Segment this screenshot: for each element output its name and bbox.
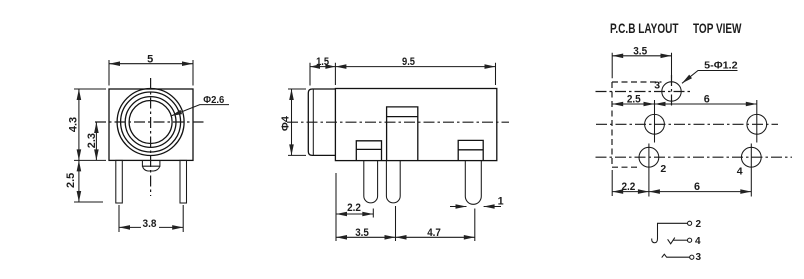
dim 2.5 line xyxy=(78,160,80,202)
svg-text:4: 4 xyxy=(695,236,701,247)
dim 2.3 line xyxy=(95,122,97,160)
hole 4 vertical extension xyxy=(750,144,752,197)
bottom dims left extension line xyxy=(335,173,337,241)
svg-text:Φ2.6: Φ2.6 xyxy=(203,94,224,106)
leader 5-dia1.2 line xyxy=(682,71,738,84)
dim 2.2 right extension xyxy=(372,209,374,218)
pin 4 terminal circle xyxy=(688,238,692,242)
pin 3 wire xyxy=(667,256,690,258)
pin 2 terminal circle xyxy=(688,221,692,225)
left terminal xyxy=(356,141,381,161)
hole 1 (middle left) xyxy=(645,114,665,134)
svg-text:TOP VIEW: TOP VIEW xyxy=(693,20,742,36)
hole 5 vertical extension xyxy=(756,100,758,143)
svg-text:4: 4 xyxy=(737,165,743,177)
hole 3 (top) xyxy=(662,82,681,101)
outer ring circle xyxy=(117,89,184,156)
dim 3.5 mid extension xyxy=(395,206,397,241)
dim 1 arrows xyxy=(456,204,467,209)
pin 3 terminal circle xyxy=(690,255,694,259)
center shield nub xyxy=(142,160,160,171)
hole 2 vertical extension xyxy=(648,144,650,197)
dim 2.5 arrows xyxy=(77,160,82,171)
right terminal leg xyxy=(465,161,481,205)
svg-text:5-Φ1.2: 5-Φ1.2 xyxy=(704,59,738,71)
dim 4.3 extension lines xyxy=(74,89,106,160)
dim 2.2 arrows xyxy=(612,189,623,194)
svg-text:2.2: 2.2 xyxy=(621,181,635,193)
hole row 1-5 centerline horizontal xyxy=(596,123,778,125)
svg-text:4.3: 4.3 xyxy=(67,117,79,132)
middle terminal leg xyxy=(386,161,400,203)
dim 1.5 line xyxy=(310,66,335,68)
svg-text:Φ4: Φ4 xyxy=(280,116,291,131)
right terminal xyxy=(458,140,483,160)
dim 4.7 arrows xyxy=(396,235,407,240)
svg-text:3.5: 3.5 xyxy=(355,227,369,239)
svg-text:1.5: 1.5 xyxy=(316,56,329,68)
svg-text:3: 3 xyxy=(696,252,702,263)
barrel (dia 4) xyxy=(308,89,335,155)
dim 3.8 extension lines xyxy=(119,205,183,232)
dim 5 extension lines xyxy=(109,60,193,86)
dim 3.8 text xyxy=(141,219,159,228)
dim 3.8 line xyxy=(119,226,183,228)
dim 2.2 arrows xyxy=(336,212,347,217)
left leg (front view) xyxy=(116,160,123,203)
hole 4 (bottom right) xyxy=(741,147,761,167)
dim 2.2 line xyxy=(612,191,649,193)
dim 6 lower arrows xyxy=(649,189,660,194)
svg-text:4.7: 4.7 xyxy=(427,227,441,239)
svg-text:P.C.B LAYOUT: P.C.B LAYOUT xyxy=(610,20,679,36)
left terminal leg xyxy=(364,161,378,203)
dim 4.7 line xyxy=(396,236,475,238)
dim 6 upper arrows xyxy=(655,102,666,107)
svg-text:5: 5 xyxy=(147,53,153,65)
jack front body rectangle xyxy=(109,89,193,160)
hole 2 (bottom left) xyxy=(639,147,659,167)
svg-text:3.5: 3.5 xyxy=(633,46,647,58)
dim 5 arrows xyxy=(109,61,120,66)
vertical centerline xyxy=(150,78,152,196)
svg-text:2.5: 2.5 xyxy=(65,173,77,188)
pin 2 wire with hook xyxy=(652,223,688,242)
leader 5-dia1.2 arrow xyxy=(682,75,692,84)
third ring circle xyxy=(125,97,176,148)
hidden body outline bottom edge xyxy=(612,166,640,168)
leader dia2.6 line xyxy=(171,105,229,116)
svg-text:2: 2 xyxy=(660,163,666,175)
hole 3 vertical centerline xyxy=(671,75,673,108)
svg-text:2: 2 xyxy=(696,219,702,230)
hidden body outline left edge xyxy=(611,82,613,167)
dim 6 lower line xyxy=(649,191,751,193)
side view centerline xyxy=(287,121,509,123)
svg-text:2.3: 2.3 xyxy=(86,133,98,148)
hole 3 centerline horizontal xyxy=(596,91,691,93)
svg-text:2.2: 2.2 xyxy=(347,202,361,214)
dim 5 line xyxy=(109,63,193,65)
svg-text:6: 6 xyxy=(694,181,700,193)
dim dia4 arrows xyxy=(289,89,294,100)
horizontal centerline xyxy=(95,121,206,123)
svg-text:3.8: 3.8 xyxy=(143,218,157,230)
pin 4 contact check symbol xyxy=(668,238,675,244)
dim 2.3 arrows xyxy=(94,122,99,133)
dim 4.3 arrows xyxy=(77,89,82,100)
right leg (front view) xyxy=(180,160,187,203)
dim 9.5 line xyxy=(335,66,495,68)
svg-text:2.5: 2.5 xyxy=(627,94,641,106)
hole row 2-4 centerline horizontal xyxy=(596,156,793,158)
dim 4.7 right extension xyxy=(474,209,476,242)
leader dia2.6 arrow xyxy=(171,110,182,116)
dim 2.5 extension line at legs bottom xyxy=(74,201,103,203)
dim 2.2 left extension xyxy=(611,170,613,196)
dim 1.5 arrows xyxy=(310,64,320,69)
dim 1 leader lines xyxy=(450,206,501,208)
main body rectangle xyxy=(335,89,496,161)
dim 4.3 line xyxy=(78,89,80,160)
svg-text:3: 3 xyxy=(654,80,660,92)
hidden body outline top edge xyxy=(612,81,662,83)
dim 3.5 arrows xyxy=(336,235,347,240)
dim 2.2 line xyxy=(336,213,373,215)
dim 1.5 and 9.5 extension lines xyxy=(310,63,496,86)
svg-text:1: 1 xyxy=(498,196,504,208)
dim 3.5 line xyxy=(612,55,671,57)
dim dia4 extension lines xyxy=(288,89,306,155)
pin 3 contact caret symbol xyxy=(662,254,667,257)
svg-text:9.5: 9.5 xyxy=(402,56,415,68)
hole 1 vertical extension xyxy=(654,100,656,143)
second ring circle xyxy=(121,92,181,152)
inner hole circle (dia 2.6) xyxy=(129,101,172,144)
dim 2.5 line xyxy=(612,103,654,105)
middle terminal xyxy=(387,107,418,161)
dim 9.5 arrows xyxy=(335,64,346,69)
dim dia4 line xyxy=(291,89,293,155)
dim 3.5 line xyxy=(336,236,396,238)
svg-text:6: 6 xyxy=(704,94,710,106)
barrel inner edge line xyxy=(312,89,314,155)
dim 3.5 extension lines xyxy=(612,53,671,78)
dim 6 upper line xyxy=(655,103,757,105)
dim 3.8 arrows xyxy=(119,225,130,230)
hole 5 (middle right) xyxy=(747,114,767,134)
dim 2.5 arrows xyxy=(612,102,623,107)
pin 4 wire xyxy=(673,239,687,241)
dim 3.5 arrows xyxy=(612,54,623,59)
